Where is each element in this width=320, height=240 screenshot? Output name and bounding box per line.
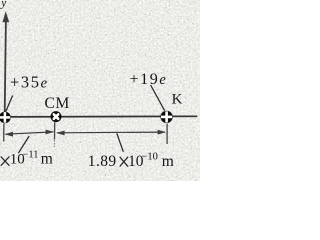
extension line below charge +19e bbox=[166, 124, 168, 145]
leader line +19e bbox=[151, 85, 165, 111]
extension line below CM bbox=[54, 122, 56, 139]
svg-text:1.8910−10m: 1.8910−10m bbox=[88, 152, 174, 171]
extension line below charge +35e bbox=[3, 124, 5, 142]
svg-text:K: K bbox=[172, 92, 183, 108]
leader line to label 1.89×10^-10 m bbox=[117, 133, 124, 152]
center of mass marker CM bbox=[51, 111, 62, 122]
svg-text:+35e: +35e bbox=[10, 72, 49, 91]
dimension arrow from origin to CM bbox=[5, 130, 54, 137]
charge +35e bbox=[0, 112, 11, 124]
label ×10^-11 m bbox=[1, 157, 9, 166]
charge +19e bbox=[160, 111, 172, 123]
svg-text:CM: CM bbox=[45, 95, 70, 112]
x-axis bbox=[0, 115, 197, 118]
label 1.89×10^-10 m bbox=[120, 157, 128, 166]
leader line +35e bbox=[6, 96, 13, 112]
svg-text:y: y bbox=[0, 0, 7, 10]
leader line to label ×10^-11 m bbox=[18, 136, 29, 153]
y-axis bbox=[3, 11, 10, 113]
svg-text:+19e: +19e bbox=[130, 71, 168, 88]
dimension arrow from CM to K bbox=[56, 130, 166, 136]
